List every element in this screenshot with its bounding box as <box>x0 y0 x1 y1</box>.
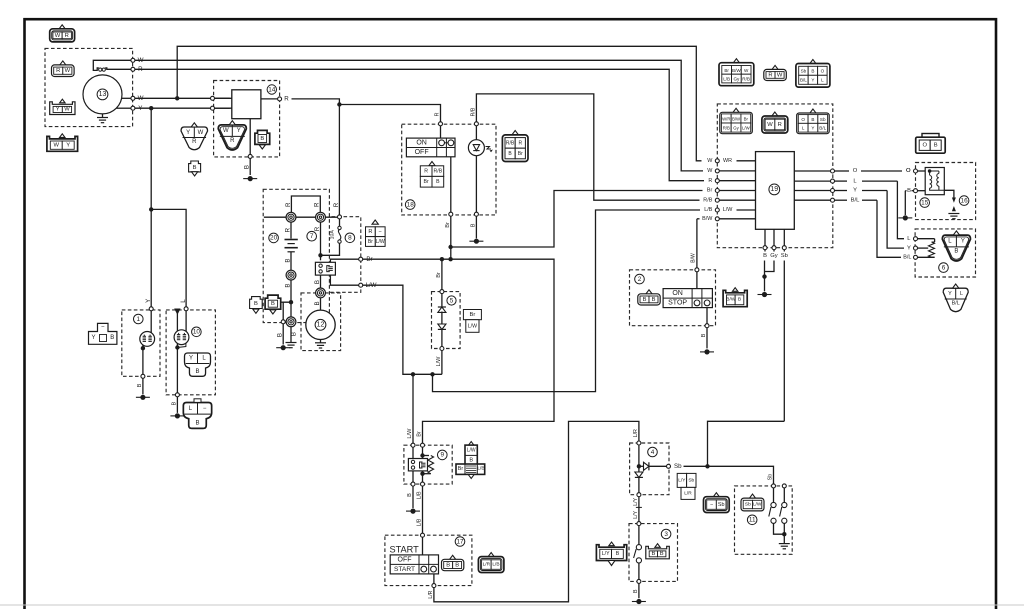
wire into headlight bulb <box>150 311 152 333</box>
bullet connector battery right <box>316 212 326 222</box>
junction dot Y <box>149 106 153 110</box>
terminal diode5 bottom <box>440 347 444 351</box>
svg-text:O: O <box>821 69 825 74</box>
svg-text:O: O <box>853 168 858 174</box>
wire B CDI ground <box>764 250 766 252</box>
svg-text:L/B: L/B <box>492 561 499 567</box>
wire relay coil LW <box>330 275 358 285</box>
svg-text:L/B: L/B <box>477 466 484 472</box>
svg-text:Gy: Gy <box>733 76 740 81</box>
wire R from 14 to R node <box>292 99 340 105</box>
svg-text:L/W: L/W <box>753 501 762 507</box>
svg-text:W: W <box>707 158 713 164</box>
CDI bottom wires <box>764 229 766 245</box>
connector Y-W <box>50 102 75 115</box>
tail light bulb 10 <box>174 330 189 345</box>
dashed box: diode 4 <box>630 443 669 495</box>
connector L--B tail harness <box>183 403 211 429</box>
svg-text:Br: Br <box>744 116 749 121</box>
wire R coil run to CDI <box>135 69 704 180</box>
svg-text:B/L: B/L <box>800 78 807 83</box>
svg-text:Y: Y <box>56 107 60 113</box>
dashed box: ignition coil 15 / spark plug 16 <box>916 163 976 220</box>
bullet connector battery left <box>286 212 296 222</box>
svg-text:B: B <box>701 333 707 337</box>
svg-text:B: B <box>171 401 177 405</box>
svg-text:B: B <box>407 493 413 497</box>
svg-text:B: B <box>616 551 620 557</box>
dashed box: diode block 5 <box>432 292 461 349</box>
diode 5 internals <box>441 294 443 307</box>
svg-text:R: R <box>333 202 340 207</box>
svg-text:B: B <box>110 335 114 341</box>
svg-text:Br: Br <box>518 151 523 157</box>
svg-text:R/B: R/B <box>703 197 712 203</box>
wire branch to B connector <box>283 302 291 320</box>
svg-text:L/W: L/W <box>376 239 385 245</box>
svg-text:R: R <box>285 202 292 207</box>
resistor parallel relay9 <box>423 455 430 457</box>
terminal B tail light <box>175 393 179 397</box>
wire W top run to CDI <box>177 46 701 161</box>
svg-text:R/B: R/B <box>723 125 730 130</box>
dashed box: starter motor 12 <box>301 293 341 351</box>
svg-text:L/Y: L/Y <box>633 510 639 518</box>
svg-text:B: B <box>254 301 258 307</box>
dashed box: CDI magneto unit 13 <box>45 48 133 126</box>
limiter switch 2 <box>783 488 785 502</box>
terminal Br relay9 <box>421 443 425 447</box>
connector B small below triangle <box>189 161 201 172</box>
svg-text:B: B <box>260 136 264 142</box>
svg-text:Gy: Gy <box>770 253 778 259</box>
wire Sb node <box>684 466 774 484</box>
svg-text:O: O <box>922 143 927 149</box>
relay 9 box <box>408 459 427 471</box>
terminal W 14 <box>211 96 215 100</box>
svg-text:Y: Y <box>907 245 911 251</box>
svg-text:B: B <box>436 179 440 185</box>
connector 6cell O-B-Sb CDI <box>810 109 816 113</box>
svg-text:L/W: L/W <box>742 125 751 130</box>
svg-text:L/B: L/B <box>417 491 423 499</box>
terminal R 14 <box>278 97 282 101</box>
terminal LY brake switch <box>637 522 641 526</box>
svg-text:B: B <box>907 188 911 194</box>
svg-text:R: R <box>768 72 772 78</box>
svg-text:W: W <box>744 68 749 73</box>
wire fuse to junction <box>321 243 340 255</box>
svg-text:−: − <box>203 406 207 412</box>
wire to starter motor <box>320 298 322 310</box>
svg-text:B: B <box>763 253 767 259</box>
wire to battery positive <box>290 222 292 238</box>
svg-text:R: R <box>285 227 292 232</box>
wire Y to rectifier 14 <box>135 107 230 109</box>
svg-text:4: 4 <box>651 449 655 456</box>
frame ground brake switch <box>632 601 646 603</box>
connector R-/Br-LW 4cell <box>372 220 378 224</box>
terminal R 18 <box>439 122 443 126</box>
wire BW from CDI to stop switch <box>696 219 698 268</box>
connector minus-Sb <box>713 493 719 497</box>
junction dot LW CDI branch <box>430 372 434 376</box>
svg-text:W: W <box>777 72 783 78</box>
svg-text:R: R <box>192 139 197 145</box>
terminal Y magneto <box>117 107 131 109</box>
frame ground 18 <box>469 240 483 242</box>
svg-text:Br: Br <box>424 179 429 185</box>
svg-text:L/Y: L/Y <box>602 551 610 557</box>
svg-text:Sb: Sb <box>674 463 682 470</box>
earth ground limiter <box>779 544 790 549</box>
brake switch contacts 3 <box>636 545 641 550</box>
connector 6cell Br-BW-W harness <box>733 59 739 63</box>
svg-text:R: R <box>518 140 522 146</box>
wire R output of 14 <box>261 98 278 100</box>
wire CDI Br run <box>451 191 703 248</box>
svg-text:Y: Y <box>811 126 814 131</box>
frame ground CDI <box>758 294 772 296</box>
wire B LED down <box>475 156 477 212</box>
svg-text:B: B <box>195 369 199 375</box>
wire relay9 B ground <box>412 486 414 508</box>
svg-text:6: 6 <box>942 264 946 271</box>
connector Sb-LW 11 <box>749 494 755 498</box>
bullet connector battery negative <box>286 270 296 280</box>
svg-text:Gy: Gy <box>733 125 739 130</box>
svg-text:L/Y: L/Y <box>633 497 639 505</box>
junction dot fuse-relay <box>318 253 322 257</box>
svg-text:13: 13 <box>99 91 107 98</box>
wire to earth ground <box>290 327 292 342</box>
connector O-B coil <box>922 134 939 139</box>
wire LY to brake switch <box>638 497 640 522</box>
resistor 6 wires <box>918 238 935 240</box>
terminal LY diode4 <box>637 493 641 497</box>
svg-text:−: − <box>379 229 382 235</box>
svg-text:R: R <box>708 178 712 184</box>
svg-text:B: B <box>244 165 251 169</box>
svg-text:B: B <box>811 69 814 74</box>
svg-text:O: O <box>801 117 805 122</box>
svg-text:17: 17 <box>456 538 464 545</box>
dashed box: brake switch 3 <box>629 524 678 582</box>
svg-text:B: B <box>738 296 741 302</box>
svg-text:Br: Br <box>470 312 476 318</box>
terminal B coil <box>914 189 918 193</box>
bullet connector to earth <box>286 317 296 327</box>
svg-text:B/L: B/L <box>903 255 911 261</box>
svg-text:Y: Y <box>237 128 241 134</box>
svg-text:B/W: B/W <box>702 216 713 222</box>
svg-text:START: START <box>394 566 415 573</box>
wire diode5 to LW node <box>441 351 443 375</box>
svg-text:Br: Br <box>445 222 451 228</box>
svg-text:R/B: R/B <box>471 107 477 116</box>
svg-text:W: W <box>223 128 229 134</box>
connector Y-L-B tail <box>185 353 211 376</box>
dashed box: rectifier/regulator 14 <box>214 81 280 157</box>
wire Br 18 down to node <box>450 216 452 259</box>
junction dot negative <box>289 300 293 304</box>
fuse 8 <box>339 219 341 226</box>
svg-text:Y: Y <box>853 188 857 194</box>
svg-text:B: B <box>811 117 814 122</box>
svg-text:7: 7 <box>310 233 314 240</box>
svg-text:Sb: Sb <box>718 502 725 508</box>
wire LB to start switch <box>422 486 424 533</box>
svg-text:Br: Br <box>707 188 713 194</box>
svg-text:R/B: R/B <box>434 169 443 175</box>
connector W-Y-R triangle <box>218 125 246 150</box>
svg-text:20: 20 <box>270 235 278 242</box>
wire LR from start switch <box>433 574 435 584</box>
dashed box: CDI unit 19 <box>717 104 833 248</box>
terminal B headlight <box>141 374 145 378</box>
connector 6cell WR-BW-Br CDI <box>733 108 739 112</box>
svg-text:B/W: B/W <box>732 116 741 121</box>
terminal B brake switch <box>637 579 641 583</box>
junction dot Br diode branch <box>440 257 444 261</box>
wire battery negative <box>290 252 292 270</box>
wire Br to diode 5 <box>441 259 443 289</box>
dashed box: battery 20 / fuse 7 <box>263 189 329 322</box>
wire LW to relay 9 <box>412 374 414 443</box>
svg-text:Sb: Sb <box>820 117 826 122</box>
frame ground headlight <box>136 396 150 398</box>
svg-text:B: B <box>314 280 321 284</box>
pilot light LED 18 <box>474 122 478 126</box>
wire headlight to ground <box>142 345 144 375</box>
wire tail light ground <box>176 344 178 393</box>
wire relay to starter <box>320 275 322 288</box>
spark plug 16 <box>944 190 954 197</box>
svg-text:B: B <box>193 165 197 171</box>
dashed box: engine stop switch 2 <box>630 270 716 326</box>
svg-text:R: R <box>314 202 321 207</box>
frame ground stop switch <box>700 351 714 353</box>
svg-text:Y: Y <box>189 356 193 362</box>
wire motor ground <box>320 340 322 343</box>
svg-text:9: 9 <box>441 452 445 459</box>
svg-text:L/W: L/W <box>436 356 442 367</box>
connector B small battery <box>250 297 263 309</box>
wires into relay 9 <box>412 447 414 460</box>
svg-text:R/B: R/B <box>506 140 515 146</box>
connector W-R CDI <box>772 112 778 116</box>
svg-text:R: R <box>435 112 441 116</box>
svg-text:B: B <box>934 143 938 149</box>
connector BW-B 2 <box>723 290 747 306</box>
terminal L tail light <box>184 307 188 311</box>
junction dot limiter <box>782 532 786 536</box>
svg-text:W: W <box>65 68 71 74</box>
starter motor 12 <box>306 310 335 339</box>
svg-text:B: B <box>285 258 292 262</box>
svg-text:11: 11 <box>749 517 756 524</box>
svg-text:B: B <box>471 223 477 227</box>
svg-text:Br: Br <box>368 239 373 245</box>
svg-text:Br: Br <box>436 272 442 278</box>
svg-text:L/W: L/W <box>467 447 476 453</box>
connector Y-W-R triangle <box>181 127 208 150</box>
svg-text:B: B <box>446 562 450 568</box>
svg-text:3: 3 <box>664 531 668 538</box>
wire R to main switch <box>440 126 442 138</box>
svg-text:Y: Y <box>811 78 814 83</box>
svg-text:L/R: L/R <box>428 590 434 598</box>
svg-text:19: 19 <box>770 186 778 193</box>
svg-text:L/B: L/B <box>704 207 712 213</box>
svg-text:L/W: L/W <box>468 323 477 329</box>
svg-text:B: B <box>314 301 321 305</box>
frame ground relay9 <box>406 510 420 512</box>
connector B-B 17 <box>450 555 456 559</box>
connector W-R <box>59 25 65 29</box>
svg-text:Sb: Sb <box>801 69 807 74</box>
connector B large battery <box>265 295 281 309</box>
svg-text:O: O <box>906 168 911 174</box>
junction dot W <box>175 96 179 100</box>
junction dot CDI Br join <box>448 245 452 249</box>
svg-text:Y: Y <box>91 335 95 341</box>
svg-text:R: R <box>230 138 235 144</box>
frame ground 14 <box>243 178 257 180</box>
svg-text:8: 8 <box>348 235 352 242</box>
terminal Sb limiter <box>772 484 776 488</box>
wire negative to ground node <box>290 280 292 317</box>
start switch table 17 <box>390 555 438 574</box>
connector Br LW stack <box>463 310 481 320</box>
frame ground battery <box>276 347 290 349</box>
svg-text:L/R: L/R <box>483 561 491 567</box>
junction dot relay9 bottom <box>420 472 424 476</box>
dashed box: starting circuit cut-off relay 9 <box>404 445 452 484</box>
wire Gy CDI <box>773 250 775 252</box>
svg-text:Y: Y <box>66 142 70 148</box>
junction dot Sb <box>705 464 709 468</box>
headlight bulb 1 <box>140 332 155 347</box>
connector 6cell Sb-B-O harness <box>810 60 816 64</box>
wire fuse branch down <box>320 222 322 260</box>
wire B of 14 to ground <box>249 119 251 155</box>
svg-text:W: W <box>707 168 713 174</box>
connector L-Y-B triangle 6 <box>942 235 970 261</box>
connector R-W harness <box>772 65 778 69</box>
svg-text:B: B <box>455 562 459 568</box>
terminal Br battery box <box>359 257 363 261</box>
frame ground tail light <box>170 415 184 417</box>
wire LW main run <box>363 285 442 374</box>
terminal LW relay9 <box>411 443 415 447</box>
svg-text:W/R: W/R <box>722 116 730 121</box>
lighting coil of magneto <box>93 60 132 70</box>
terminal W coil <box>131 58 135 62</box>
connector LY-B 3 <box>596 545 626 561</box>
svg-text:Br: Br <box>458 466 464 472</box>
terminal on box edge <box>281 320 285 324</box>
svg-text:L/B: L/B <box>417 518 423 526</box>
wire BL to resistor <box>877 200 901 257</box>
svg-text:R: R <box>778 122 782 128</box>
wire Sb up to CDI <box>708 421 785 466</box>
diode 4 right <box>639 465 644 467</box>
main switch table 18 <box>406 138 455 157</box>
wire Y to resistor <box>887 191 904 249</box>
junction dot relay9 top <box>420 453 424 457</box>
svg-text:B: B <box>277 333 284 337</box>
limiter switch 1 <box>773 488 775 502</box>
wire R down to fuse <box>338 105 340 215</box>
stop switch table 2 <box>663 289 712 308</box>
svg-text:L/R: L/R <box>684 490 692 496</box>
svg-text:ON: ON <box>672 290 683 297</box>
wire to frame ground <box>282 324 284 345</box>
svg-text:OFF: OFF <box>415 149 429 156</box>
junction dot Br switch branch <box>448 257 452 261</box>
svg-text:L: L <box>821 78 824 83</box>
terminal BW stop switch <box>695 268 699 272</box>
terminal diode5 top <box>440 290 444 294</box>
dashed box: main switch 18 <box>402 124 496 215</box>
wire B stop switch ground <box>706 308 708 324</box>
svg-text:1: 1 <box>137 316 141 323</box>
dashed box: resistor 6 <box>915 229 975 277</box>
svg-text:B: B <box>290 332 297 336</box>
terminal Y 14 <box>211 106 215 110</box>
connector W-Y <box>47 136 78 151</box>
wire Y down to headlight <box>150 108 152 306</box>
connector Y-box-B headlight <box>89 323 117 344</box>
wires out of relay 9 <box>412 471 414 482</box>
connector B-B 2 <box>646 290 652 294</box>
svg-text:Sb: Sb <box>768 474 774 480</box>
svg-text:Br: Br <box>724 68 729 73</box>
connector B square 14 <box>255 130 270 144</box>
svg-text:15: 15 <box>921 199 929 206</box>
svg-text:10: 10 <box>193 329 201 336</box>
svg-text:B: B <box>954 248 958 254</box>
svg-text:OFF: OFF <box>398 556 412 563</box>
svg-text:STOP: STOP <box>668 300 687 307</box>
svg-text:Y: Y <box>961 239 965 245</box>
svg-text:B: B <box>652 297 656 303</box>
junction dot R node <box>337 102 341 106</box>
svg-text:L: L <box>180 299 187 303</box>
svg-text:B: B <box>660 551 664 557</box>
svg-text:10A: 10A <box>330 230 336 240</box>
svg-text:Sb: Sb <box>781 253 788 259</box>
terminal LB relay9 <box>421 482 425 486</box>
svg-text:B/L: B/L <box>819 126 826 131</box>
connector B-B 3 <box>646 546 670 559</box>
svg-text:W: W <box>55 33 61 39</box>
svg-text:W: W <box>198 130 204 136</box>
wire relay coil Br <box>330 259 358 262</box>
svg-text:L/R: L/R <box>633 429 639 437</box>
connector cross LW-B-Br-LB <box>468 442 474 446</box>
rectifier box 14 <box>232 90 261 119</box>
resistor 6 zigzag <box>934 239 936 242</box>
fuse 10A terminal <box>338 215 342 219</box>
battery 20 <box>285 240 298 252</box>
svg-text:L/Y: L/Y <box>678 477 686 483</box>
svg-text:18: 18 <box>407 201 415 208</box>
svg-text:−: − <box>710 502 713 508</box>
svg-text:Sb: Sb <box>688 477 694 483</box>
svg-text:R: R <box>65 33 69 39</box>
